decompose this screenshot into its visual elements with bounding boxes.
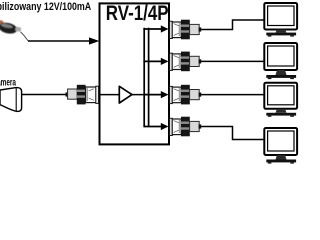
branch arrow output 2 bbox=[143, 58, 168, 65]
monitor 2 bbox=[264, 43, 297, 79]
wire: output 1 to monitor 1 (step up) bbox=[201, 20, 265, 30]
power plug (DC connector photo, blurred) bbox=[0, 20, 21, 35]
branch arrow output 1 bbox=[143, 25, 168, 32]
branch arrow output 4 bbox=[143, 123, 168, 130]
BNC connector output 2 bbox=[170, 52, 202, 72]
svg-text:stabilizowany 12V/100mA: stabilizowany 12V/100mA bbox=[0, 1, 91, 13]
wire: output 3 to monitor 3 (straight) bbox=[201, 94, 265, 96]
bus vertical line (left) bbox=[143, 28, 145, 127]
branch arrow output 3 bbox=[143, 91, 168, 98]
label: kamera (clipped at left edge) bbox=[0, 77, 16, 88]
camera body bbox=[0, 88, 22, 112]
title RV-1/4P bbox=[106, 2, 169, 25]
wire: camera coax bbox=[22, 94, 67, 96]
wire: output 4 to monitor 4 (step down) bbox=[201, 127, 265, 140]
monitor 4 bbox=[264, 128, 297, 164]
monitor 1 bbox=[264, 3, 297, 37]
monitor 3 bbox=[264, 83, 297, 117]
amplifier triangle bbox=[119, 86, 132, 103]
BNC connector output 1 (socket, nut, plug, boot) bbox=[170, 20, 202, 40]
bus vertical line (right) bbox=[148, 28, 150, 127]
BNC plug: camera input (boot, body, nut, socket) bbox=[66, 85, 99, 105]
wire: plug cable bbox=[21, 32, 29, 41]
wire: input to amplifier bbox=[100, 94, 120, 96]
BNC connector output 3 bbox=[170, 85, 202, 105]
svg-text:kamera: kamera bbox=[0, 77, 16, 88]
label: power supply "stabilizowany 12V/100mA" (clipped at left edge) bbox=[0, 1, 91, 13]
device box RV-1/4P bbox=[100, 3, 170, 144]
svg-text:RV-1/4P: RV-1/4P bbox=[106, 2, 169, 25]
wire: amplifier output to bus bbox=[132, 94, 149, 96]
wire: output 2 to monitor 2 (straight) bbox=[201, 60, 265, 62]
BNC connector output 4 bbox=[170, 117, 202, 137]
wire: power feed arrow into box bbox=[28, 37, 99, 44]
